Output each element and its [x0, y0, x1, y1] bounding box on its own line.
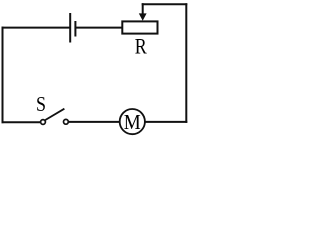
rheostat slider arrow stem — [142, 4, 144, 14]
switch left contact — [41, 120, 46, 125]
wire switch to motor — [69, 121, 120, 123]
battery long plate (+) — [69, 14, 71, 42]
rheostat R body — [122, 21, 157, 33]
switch S — [41, 109, 69, 125]
wire right vertical — [185, 4, 187, 122]
svg-text:M: M — [124, 110, 141, 134]
wire bottom-right (motor to right wire) — [145, 121, 186, 123]
switch lever — [45, 109, 64, 120]
svg-text:R: R — [135, 35, 147, 59]
wire slider top horizontal — [143, 3, 187, 5]
svg-text:S: S — [36, 92, 46, 116]
wire top-left horizontal (battery left lead) — [3, 27, 70, 29]
wire battery to rheostat — [76, 27, 122, 29]
wire left vertical — [2, 28, 4, 123]
battery short plate (-) — [74, 22, 76, 36]
rheostat slider arrowhead — [139, 13, 147, 20]
battery cell — [70, 14, 75, 42]
motor M circle — [120, 109, 145, 134]
switch right contact — [64, 119, 69, 124]
wire bottom-left (to switch) — [3, 121, 41, 123]
